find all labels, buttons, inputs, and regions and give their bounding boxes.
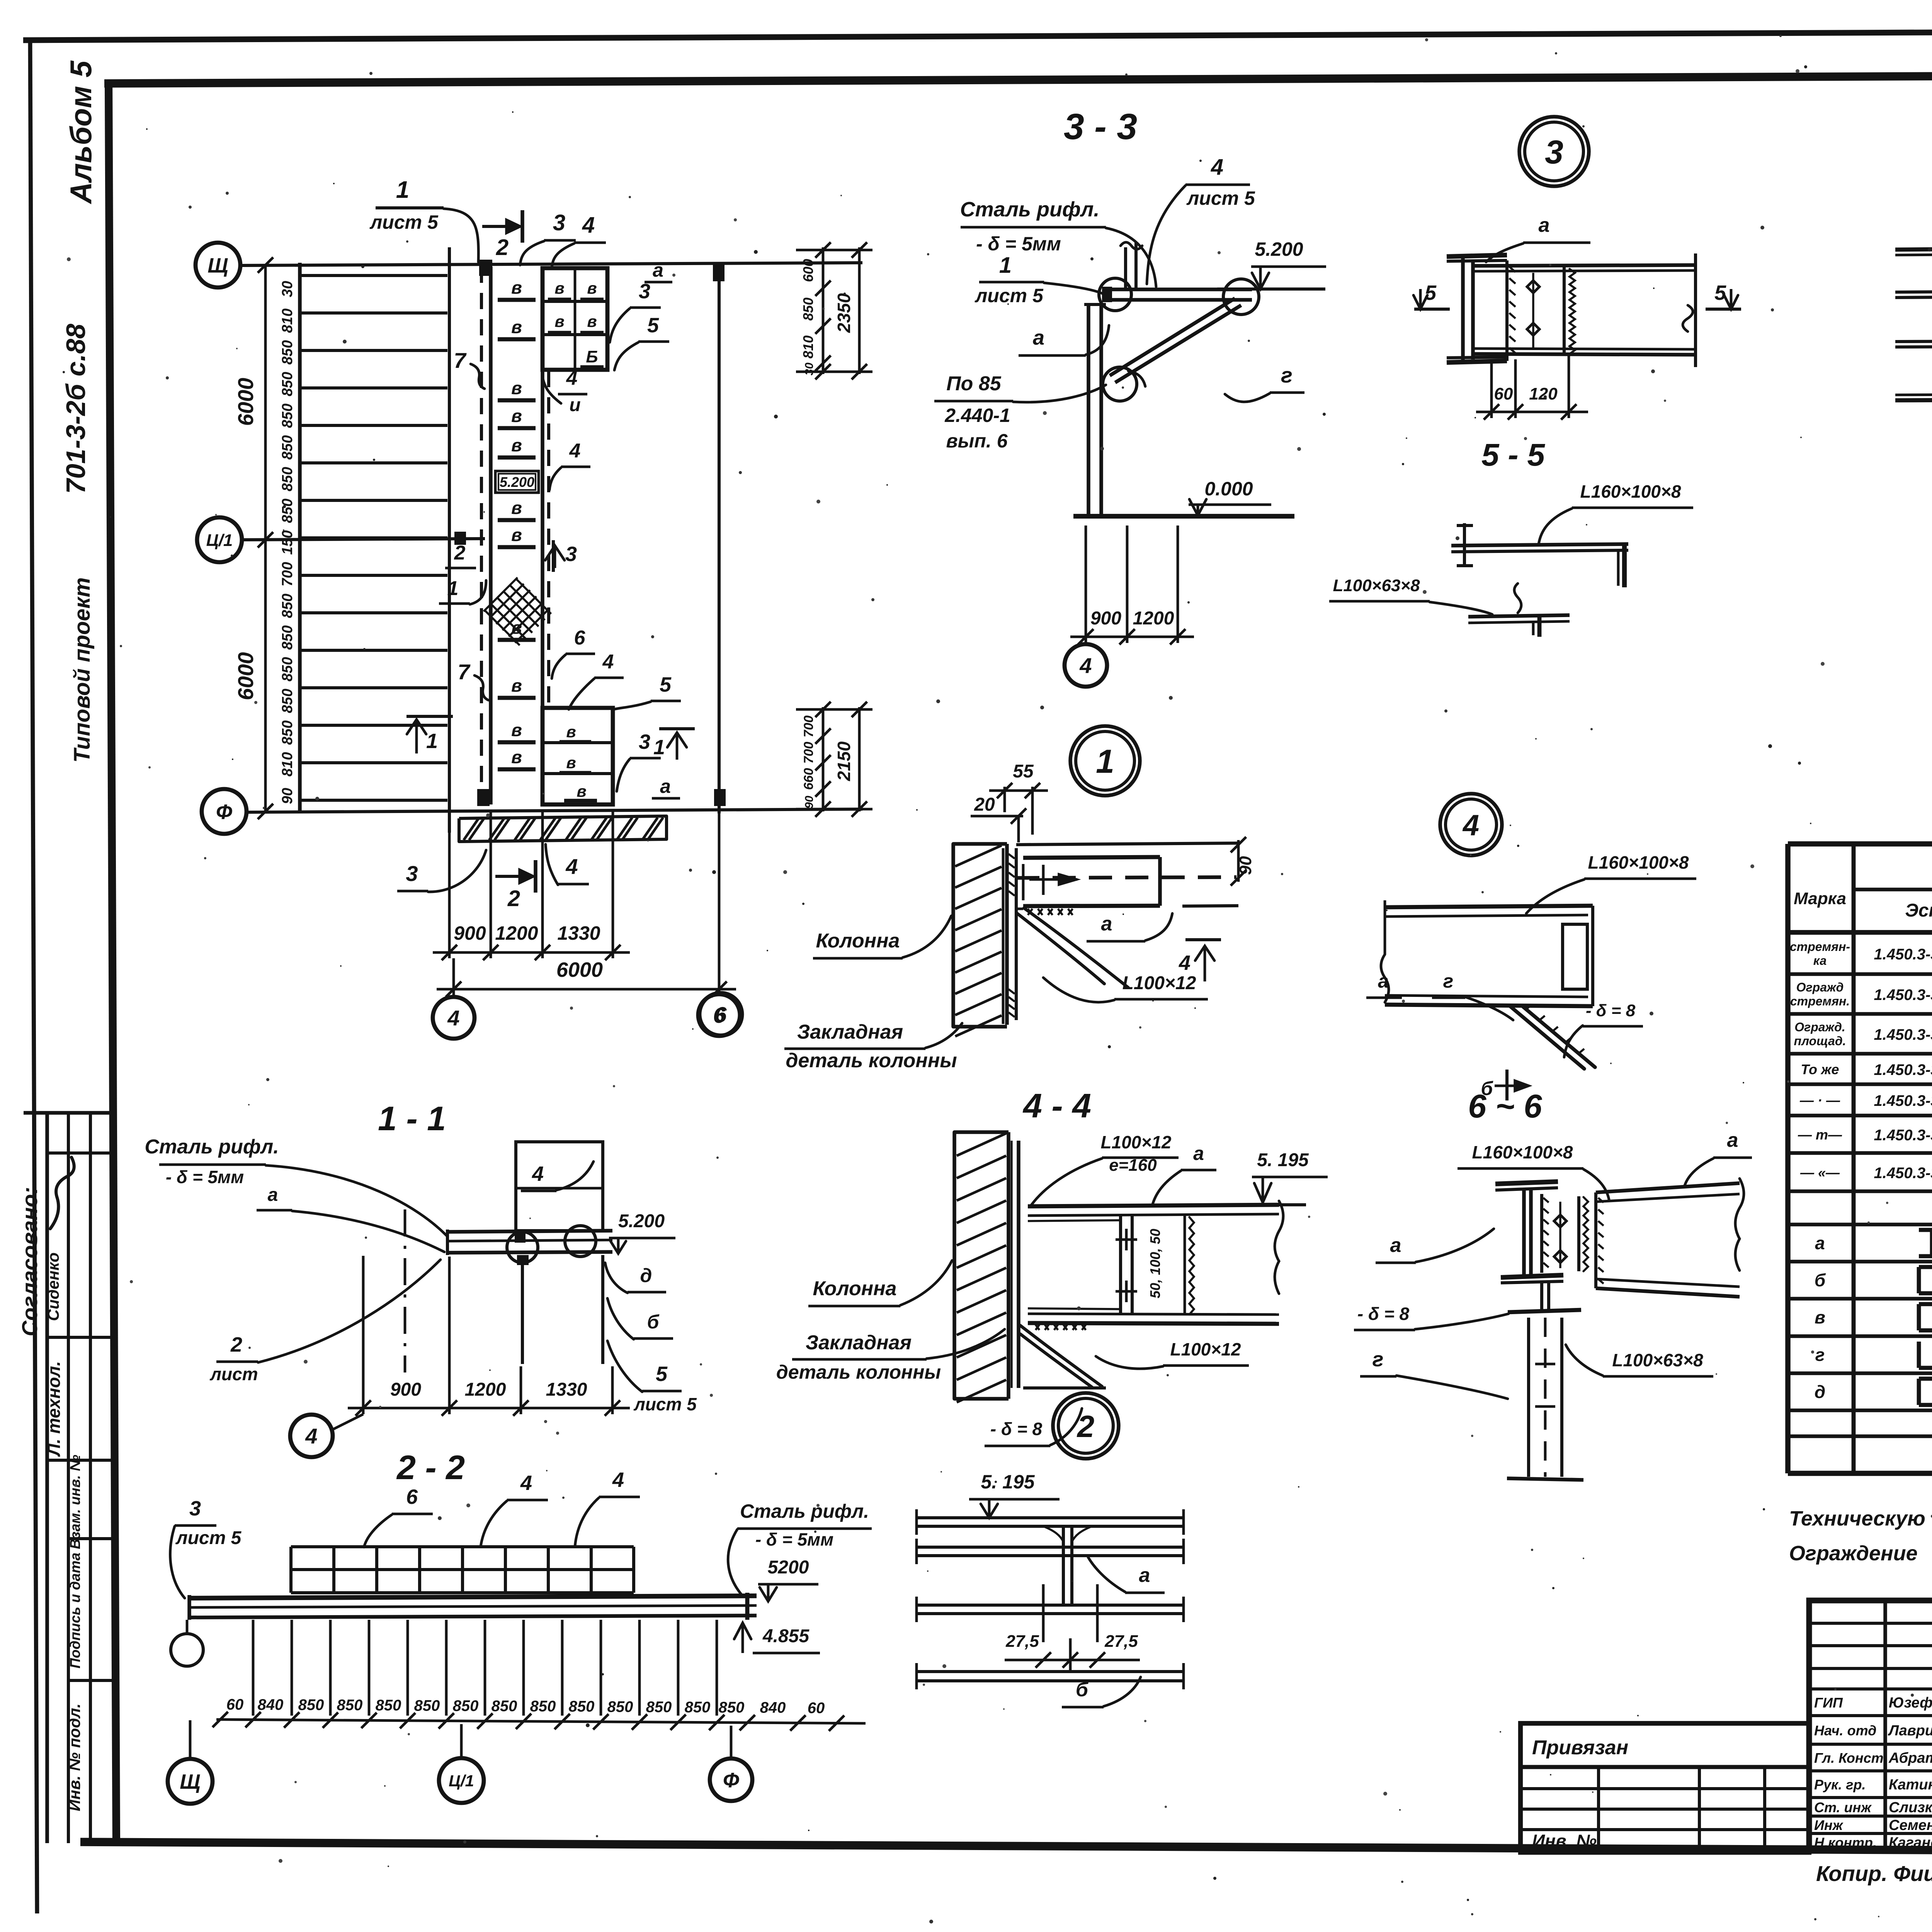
svg-text:3: 3 <box>406 861 418 886</box>
svg-text:5.200: 5.200 <box>1255 238 1303 260</box>
svg-text:27,5: 27,5 <box>1104 1632 1138 1651</box>
svg-text:- δ = 5мм: - δ = 5мм <box>976 233 1061 255</box>
svg-text:4: 4 <box>532 1162 544 1185</box>
svg-text:а: а <box>653 259 663 281</box>
svg-text:Сталь рифл.: Сталь рифл. <box>740 1500 869 1522</box>
svg-text:20: 20 <box>974 794 995 815</box>
svg-text:Альбом 5: Альбом 5 <box>64 60 98 204</box>
svg-text:1.450.3-3 Вып.1: 1.450.3-3 Вып.1 <box>1874 1165 1932 1182</box>
svg-text:Н.контр.: Н.контр. <box>1814 1835 1877 1850</box>
svg-text:Колонна: Колонна <box>813 1277 897 1300</box>
svg-text:То же: То же <box>1801 1061 1839 1077</box>
svg-text:1.450.3-3 Вып.1: 1.450.3-3 Вып.1 <box>1874 1061 1932 1078</box>
svg-text:850: 850 <box>279 403 296 428</box>
svg-text:4 - 4: 4 - 4 <box>1022 1087 1091 1125</box>
svg-text:1330: 1330 <box>557 922 600 944</box>
svg-text:а: а <box>1815 1233 1825 1253</box>
svg-text:Сталь рифл.: Сталь рифл. <box>960 198 1100 221</box>
svg-text:г: г <box>1372 1348 1384 1371</box>
svg-text:6 ~ 6: 6 ~ 6 <box>1468 1088 1542 1125</box>
svg-text:4: 4 <box>520 1471 532 1495</box>
svg-text:850: 850 <box>279 372 296 396</box>
svg-text:4: 4 <box>569 440 581 462</box>
svg-text:в: в <box>554 279 564 297</box>
svg-text:90: 90 <box>803 796 816 809</box>
svg-text:2150: 2150 <box>834 741 854 781</box>
svg-text:в: в <box>511 406 522 426</box>
svg-text:Марка: Марка <box>1794 889 1846 908</box>
svg-text:6000: 6000 <box>556 958 603 981</box>
svg-text:а: а <box>268 1185 278 1205</box>
svg-text:1: 1 <box>447 577 459 600</box>
svg-text:1.450.3-3 Вып.1: 1.450.3-3 Вып.1 <box>1874 986 1932 1003</box>
svg-text:лист 5: лист 5 <box>369 211 439 233</box>
svg-text:900: 900 <box>390 1379 421 1400</box>
svg-text:1200: 1200 <box>495 922 538 944</box>
svg-text:2: 2 <box>496 235 509 260</box>
svg-text:701-3-2б с.88: 701-3-2б с.88 <box>61 324 91 494</box>
svg-text:Л. технол.: Л. технол. <box>44 1361 64 1457</box>
svg-text:Закладная: Закладная <box>806 1332 912 1354</box>
svg-text:в: в <box>577 782 586 800</box>
svg-text:6: 6 <box>574 627 586 649</box>
svg-text:Слизкой: Слизкой <box>1889 1799 1932 1816</box>
svg-text:Гл. Конст.: Гл. Конст. <box>1814 1750 1887 1766</box>
svg-text:850: 850 <box>279 625 296 650</box>
svg-text:850: 850 <box>279 594 296 618</box>
svg-text:4: 4 <box>582 213 595 238</box>
svg-text:850: 850 <box>569 1698 595 1715</box>
svg-text:60: 60 <box>226 1696 244 1713</box>
svg-text:4: 4 <box>602 651 614 673</box>
svg-text:— т—: — т— <box>1798 1127 1842 1143</box>
svg-text:6: 6 <box>406 1485 418 1509</box>
svg-text:850: 850 <box>279 467 296 491</box>
svg-text:Ц/1: Ц/1 <box>206 531 233 550</box>
svg-text:и: и <box>569 395 580 415</box>
svg-text:Ст. инж: Ст. инж <box>1814 1799 1872 1815</box>
svg-text:810: 810 <box>279 308 296 333</box>
svg-text:4: 4 <box>1079 653 1092 678</box>
svg-text:5.200: 5.200 <box>500 474 534 490</box>
svg-text:2 - 2: 2 - 2 <box>396 1448 465 1486</box>
svg-text:в: в <box>511 675 522 696</box>
svg-text:Закладная: Закладная <box>797 1021 903 1043</box>
svg-text:5. 195: 5. 195 <box>981 1471 1035 1493</box>
svg-text:Ф: Ф <box>216 800 232 823</box>
svg-text:5: 5 <box>1425 281 1437 304</box>
svg-text:а: а <box>1390 1234 1401 1257</box>
svg-text:в: в <box>566 753 576 772</box>
svg-text:а: а <box>1539 214 1550 236</box>
svg-text:Колонна: Колонна <box>816 930 900 952</box>
svg-text:Техническую спецификацию мет: Техническую спецификацию металла и общие… <box>1789 1507 1932 1530</box>
svg-text:30: 30 <box>279 281 296 297</box>
svg-text:лист 5: лист 5 <box>633 1394 697 1414</box>
svg-text:г: г <box>1443 970 1454 992</box>
svg-text:а: а <box>660 776 671 797</box>
svg-text:1: 1 <box>426 730 438 753</box>
svg-text:850: 850 <box>492 1697 517 1714</box>
svg-text:120: 120 <box>1529 384 1558 403</box>
svg-text:700: 700 <box>801 742 816 764</box>
svg-text:лист: лист <box>209 1364 258 1384</box>
svg-text:1330: 1330 <box>546 1379 587 1400</box>
svg-text:- δ = 5мм: - δ = 5мм <box>166 1167 244 1187</box>
svg-text:5: 5 <box>660 673 672 696</box>
svg-text:Инж: Инж <box>1814 1817 1844 1833</box>
svg-text:5: 5 <box>656 1362 668 1386</box>
svg-text:Типовой проект: Типовой проект <box>70 577 95 763</box>
svg-text:Абратовский: Абратовский <box>1888 1750 1932 1766</box>
svg-text:в: в <box>511 277 522 298</box>
svg-text:6: 6 <box>714 1002 727 1027</box>
svg-text:3: 3 <box>639 280 650 303</box>
svg-text:900: 900 <box>454 922 486 944</box>
svg-text:850: 850 <box>337 1697 363 1714</box>
svg-text:5 - 5: 5 - 5 <box>1481 437 1545 473</box>
svg-text:Рук. гр.: Рук. гр. <box>1814 1777 1866 1793</box>
svg-text:4: 4 <box>1462 809 1479 842</box>
svg-text:1200: 1200 <box>1133 608 1174 629</box>
svg-text:Эскиз: Эскиз <box>1905 900 1932 921</box>
svg-text:90: 90 <box>1236 856 1255 875</box>
svg-text:вып. 6: вып. 6 <box>946 430 1008 452</box>
svg-text:Юзефович: Юзефович <box>1889 1695 1932 1711</box>
svg-text:850: 850 <box>279 657 296 681</box>
svg-text:L160×100×8: L160×100×8 <box>1472 1142 1573 1162</box>
svg-text:стремян.: стремян. <box>1790 994 1850 1008</box>
svg-text:г: г <box>1281 363 1293 387</box>
svg-text:в: в <box>1815 1307 1825 1327</box>
svg-text:в: в <box>511 525 522 545</box>
svg-text:стремян-: стремян- <box>1790 940 1850 954</box>
svg-text:- δ = 8: - δ = 8 <box>1586 1001 1636 1020</box>
svg-text:660: 660 <box>801 768 816 790</box>
svg-text:5.200: 5.200 <box>618 1211 665 1231</box>
svg-text:в: в <box>511 378 522 398</box>
svg-text:4: 4 <box>612 1468 624 1492</box>
svg-text:4: 4 <box>305 1424 317 1448</box>
svg-text:Ф: Ф <box>723 1769 739 1792</box>
svg-text:3: 3 <box>1545 134 1563 171</box>
svg-text:L160×100×8: L160×100×8 <box>1580 481 1681 502</box>
svg-text:4: 4 <box>566 367 578 389</box>
svg-text:850: 850 <box>414 1697 440 1714</box>
svg-text:в: в <box>554 312 564 330</box>
svg-text:в: в <box>511 720 522 740</box>
svg-text:в: в <box>511 498 522 518</box>
svg-text:в: в <box>511 435 522 455</box>
svg-text:лист 5: лист 5 <box>175 1528 242 1548</box>
svg-text:5. 195: 5. 195 <box>1257 1150 1309 1170</box>
svg-text:1: 1 <box>653 736 665 759</box>
svg-text:Согласовано:: Согласовано: <box>17 1187 42 1337</box>
svg-text:площад.: площад. <box>1794 1034 1846 1048</box>
svg-text:По 85: По 85 <box>946 372 1002 395</box>
svg-text:1.450.3-3 Вып.1: 1.450.3-3 Вып.1 <box>1874 1092 1932 1109</box>
svg-text:в: в <box>511 747 522 767</box>
svg-text:850: 850 <box>376 1697 401 1714</box>
svg-text:900: 900 <box>1090 608 1121 629</box>
svg-text:840: 840 <box>258 1696 284 1713</box>
svg-text:1.450.3-3 Вып.1: 1.450.3-3 Вып.1 <box>1874 1127 1932 1144</box>
svg-text:2: 2 <box>230 1333 242 1356</box>
svg-text:Ц/1: Ц/1 <box>449 1772 474 1790</box>
svg-text:2350: 2350 <box>834 293 854 333</box>
svg-text:850: 850 <box>279 435 296 459</box>
svg-text:лист 5: лист 5 <box>1186 187 1255 209</box>
svg-text:в: в <box>587 279 597 297</box>
svg-text:а: а <box>1033 326 1044 349</box>
svg-text:6000: 6000 <box>233 378 258 426</box>
svg-text:1: 1 <box>396 177 409 203</box>
svg-text:850: 850 <box>719 1699 745 1716</box>
svg-text:L100×63×8: L100×63×8 <box>1333 576 1420 595</box>
svg-text:90: 90 <box>279 788 296 804</box>
svg-text:55: 55 <box>1013 761 1034 782</box>
svg-text:а: а <box>1101 913 1112 935</box>
svg-text:2: 2 <box>454 542 466 564</box>
svg-text:Инв. №: Инв. № <box>1532 1831 1597 1851</box>
svg-text:деталь колонны: деталь колонны <box>786 1049 957 1072</box>
svg-text:7: 7 <box>457 660 471 684</box>
svg-text:2: 2 <box>507 886 520 911</box>
svg-text:850: 850 <box>279 498 296 523</box>
svg-text:1.450.3-3 Вып.1: 1.450.3-3 Вып.1 <box>1874 946 1932 963</box>
svg-text:7: 7 <box>454 348 467 372</box>
svg-text:2.440-1: 2.440-1 <box>944 405 1010 426</box>
svg-text:в: в <box>566 723 576 741</box>
svg-text:д: д <box>640 1265 652 1286</box>
svg-text:Копир. Фиц- / Геренрот /: Копир. Фиц- / Геренрот / <box>1816 1861 1932 1886</box>
svg-text:- δ = 8: - δ = 8 <box>1357 1304 1410 1324</box>
svg-text:Огражд: Огражд <box>1796 980 1844 994</box>
svg-text:L100×12: L100×12 <box>1101 1132 1172 1152</box>
svg-text:850: 850 <box>646 1699 672 1716</box>
svg-text:3: 3 <box>565 543 577 566</box>
svg-text:0.000: 0.000 <box>1204 478 1253 500</box>
svg-text:1: 1 <box>999 253 1012 278</box>
svg-text:4: 4 <box>1179 951 1190 975</box>
svg-text:Взам. инв. №: Взам. инв. № <box>67 1455 83 1549</box>
svg-text:в: в <box>587 312 597 330</box>
svg-text:Щ: Щ <box>207 254 228 277</box>
svg-text:850: 850 <box>453 1697 479 1714</box>
svg-text:850: 850 <box>685 1699 711 1716</box>
svg-text:L100×12: L100×12 <box>1122 973 1196 993</box>
svg-text:850: 850 <box>800 298 816 321</box>
svg-text:— · —: — · — <box>1799 1092 1840 1108</box>
svg-text:Семенова: Семенова <box>1889 1817 1932 1833</box>
svg-text:Сталь рифл.: Сталь рифл. <box>145 1136 279 1158</box>
svg-text:850: 850 <box>530 1698 556 1715</box>
svg-text:Подпись и дата: Подпись и дата <box>67 1553 83 1668</box>
svg-text:3: 3 <box>553 210 565 235</box>
svg-text:700: 700 <box>279 562 296 586</box>
svg-text:850: 850 <box>279 720 296 745</box>
svg-text:ка: ка <box>1813 954 1827 968</box>
svg-text:60: 60 <box>1494 384 1513 403</box>
svg-text:а: а <box>1193 1143 1204 1164</box>
svg-text:г: г <box>1815 1345 1825 1365</box>
svg-text:в: в <box>511 317 522 337</box>
svg-text:4: 4 <box>447 1006 459 1030</box>
svg-text:850: 850 <box>298 1696 324 1713</box>
svg-text:Сиденко: Сиденко <box>44 1252 62 1321</box>
svg-text:4: 4 <box>1211 155 1223 180</box>
svg-text:деталь колонны: деталь колонны <box>776 1361 941 1383</box>
svg-text:850: 850 <box>279 689 296 713</box>
svg-text:6000: 6000 <box>233 652 258 701</box>
svg-text:Привязан: Привязан <box>1532 1736 1628 1759</box>
svg-text:4: 4 <box>565 854 578 879</box>
svg-text:б: б <box>1076 1679 1089 1701</box>
svg-text:а: а <box>1727 1129 1738 1151</box>
svg-text:150: 150 <box>279 530 296 554</box>
svg-text:50, 100, 50: 50, 100, 50 <box>1147 1229 1163 1298</box>
svg-text:- δ = 5мм: - δ = 5мм <box>755 1529 833 1549</box>
svg-text:а: а <box>1378 970 1389 992</box>
svg-text:30: 30 <box>803 362 816 376</box>
svg-text:Щ: Щ <box>180 1770 200 1793</box>
svg-text:600: 600 <box>800 259 816 282</box>
svg-text:L100×63×8: L100×63×8 <box>1612 1350 1703 1370</box>
svg-text:840: 840 <box>760 1699 786 1716</box>
svg-text:850: 850 <box>279 340 296 364</box>
svg-text:д: д <box>1815 1382 1825 1402</box>
svg-text:27,5: 27,5 <box>1005 1632 1039 1651</box>
svg-text:Огражд.: Огражд. <box>1794 1020 1845 1034</box>
svg-text:4.855: 4.855 <box>762 1626 810 1646</box>
svg-text:- δ = 8: - δ = 8 <box>990 1419 1043 1439</box>
svg-text:3: 3 <box>639 730 650 753</box>
svg-text:60: 60 <box>808 1699 825 1716</box>
svg-text:700: 700 <box>801 716 816 738</box>
svg-text:1200: 1200 <box>465 1379 506 1400</box>
svg-text:б: б <box>1815 1270 1826 1290</box>
svg-text:3 - 3: 3 - 3 <box>1064 106 1137 147</box>
svg-text:850: 850 <box>607 1698 633 1715</box>
svg-text:3: 3 <box>189 1497 201 1520</box>
svg-text:Лавриненко: Лавриненко <box>1888 1723 1932 1739</box>
svg-text:а: а <box>1139 1564 1150 1587</box>
svg-text:1.450.3-3 Вып.1: 1.450.3-3 Вып.1 <box>1874 1026 1932 1043</box>
svg-text:2: 2 <box>1077 1409 1095 1444</box>
svg-text:5200: 5200 <box>768 1557 809 1578</box>
svg-text:— «—: — «— <box>1800 1165 1840 1180</box>
svg-text:Нач. отд: Нач. отд <box>1814 1723 1876 1738</box>
svg-text:810: 810 <box>279 752 296 776</box>
svg-text:лист 5: лист 5 <box>975 285 1044 306</box>
svg-text:5: 5 <box>647 314 659 337</box>
svg-text:Катинская: Катинская <box>1889 1777 1932 1793</box>
svg-text:Инв. № подл.: Инв. № подл. <box>65 1703 83 1811</box>
svg-text:810: 810 <box>800 335 816 359</box>
svg-text:5: 5 <box>1714 281 1726 304</box>
svg-text:б: б <box>647 1311 660 1333</box>
svg-text:L160×100×8: L160×100×8 <box>1588 852 1689 872</box>
svg-text:1: 1 <box>1096 743 1114 780</box>
svg-text:L100×12: L100×12 <box>1170 1339 1241 1359</box>
svg-text:Б: Б <box>586 347 598 366</box>
svg-text:ГИП: ГИП <box>1814 1695 1843 1711</box>
svg-text:Кагановская: Кагановская <box>1889 1835 1932 1851</box>
svg-text:Ограждение поз. 5 выполни: Ограждение поз. 5 выполнить съемным. <box>1789 1542 1932 1565</box>
svg-text:1 - 1: 1 - 1 <box>378 1099 446 1138</box>
